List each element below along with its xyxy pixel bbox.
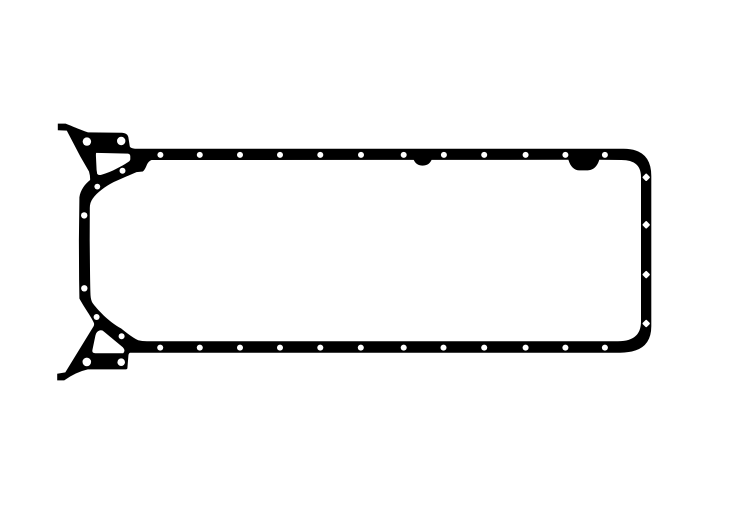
gasket body outline with interior opening and ear cutouts bbox=[57, 124, 651, 381]
bolt holes: left rail bbox=[81, 212, 88, 291]
bolt holes: right rail (diamond shaped) bbox=[642, 173, 650, 327]
bolt holes: upper-left ear bbox=[83, 137, 126, 190]
bolt holes: bottom rail bbox=[157, 345, 608, 351]
bolt holes: top rail bbox=[157, 152, 608, 158]
bolt holes: lower-left ear bbox=[83, 314, 125, 366]
